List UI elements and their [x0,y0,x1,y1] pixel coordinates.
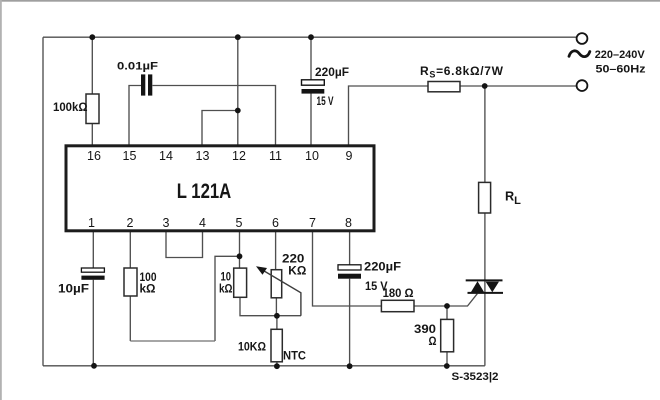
svg-text:5: 5 [236,216,243,230]
svg-text:220–240V: 220–240V [595,49,646,61]
svg-text:50–60Hz: 50–60Hz [596,63,647,75]
svg-text:kΩ: kΩ [140,281,156,295]
svg-text:6: 6 [272,216,279,230]
svg-text:kΩ: kΩ [219,282,233,296]
svg-text:220µF: 220µF [315,65,349,79]
svg-text:10: 10 [305,149,319,163]
svg-text:NTC: NTC [283,349,306,363]
svg-text:10µF: 10µF [58,282,90,296]
svg-text:KΩ: KΩ [288,264,306,278]
svg-text:15: 15 [123,149,137,163]
svg-text:7: 7 [309,216,316,230]
svg-text:9: 9 [346,149,353,163]
svg-text:11: 11 [269,149,282,163]
svg-text:10KΩ: 10KΩ [238,340,266,354]
svg-text:220µF: 220µF [364,260,402,274]
svg-text:14: 14 [159,149,173,163]
svg-text:Ω: Ω [429,334,437,348]
svg-text:L 121A: L 121A [177,179,232,203]
svg-text:1: 1 [88,216,95,230]
svg-text:3: 3 [163,216,170,230]
svg-text:12: 12 [232,149,246,163]
svg-text:0.01µF: 0.01µF [117,60,158,72]
svg-text:S-3523|2: S-3523|2 [452,371,499,383]
svg-text:180 Ω: 180 Ω [383,286,414,300]
svg-text:2: 2 [127,216,134,230]
svg-text:13: 13 [196,149,210,163]
svg-text:100kΩ: 100kΩ [53,100,88,114]
svg-text:16: 16 [87,149,101,163]
svg-text:15 V: 15 V [317,94,335,108]
svg-text:8: 8 [345,216,352,230]
svg-text:4: 4 [199,216,206,230]
